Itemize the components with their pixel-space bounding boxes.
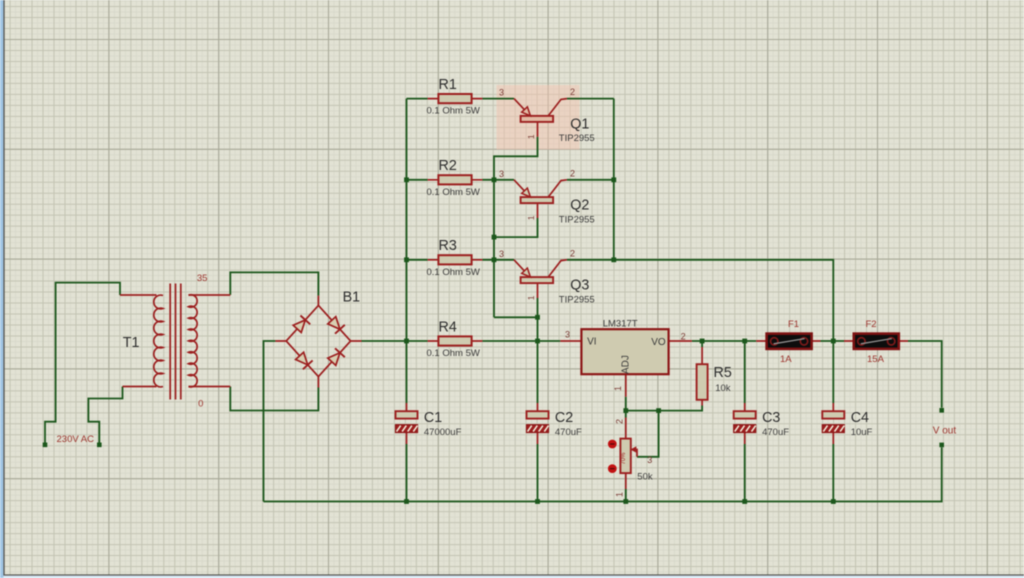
svg-text:C4: C4: [851, 410, 869, 426]
svg-text:R5: R5: [714, 365, 732, 381]
svg-text:F2: F2: [866, 319, 877, 330]
svg-text:10k: 10k: [715, 383, 731, 394]
svg-text:B1: B1: [343, 290, 361, 306]
svg-text:TIP2955: TIP2955: [559, 214, 595, 225]
svg-text:0.1 Ohm 5W: 0.1 Ohm 5W: [427, 106, 480, 117]
svg-text:1: 1: [526, 134, 536, 139]
svg-text:3: 3: [499, 88, 504, 98]
svg-text:R4: R4: [439, 319, 457, 335]
svg-text:1: 1: [613, 386, 623, 391]
svg-text:47000uF: 47000uF: [424, 427, 462, 438]
svg-text:VO: VO: [651, 337, 666, 348]
svg-text:230V AC: 230V AC: [57, 434, 95, 445]
svg-text:2: 2: [681, 331, 686, 341]
svg-text:C1: C1: [424, 410, 442, 426]
svg-text:F1: F1: [788, 319, 799, 330]
svg-text:Q3: Q3: [570, 278, 589, 294]
svg-text:Q1: Q1: [570, 117, 589, 133]
svg-text:3: 3: [565, 330, 570, 340]
svg-text:Q2: Q2: [570, 198, 589, 214]
svg-text:0: 0: [198, 399, 203, 410]
svg-text:R1: R1: [439, 77, 457, 93]
svg-text:V out: V out: [933, 426, 957, 437]
svg-text:1A: 1A: [780, 354, 792, 365]
svg-text:50k: 50k: [637, 472, 653, 483]
svg-text:1: 1: [526, 215, 536, 220]
svg-text:470uF: 470uF: [555, 427, 582, 438]
svg-text:470uF: 470uF: [762, 427, 789, 438]
svg-text:70%: 70%: [621, 452, 627, 465]
svg-text:C3: C3: [762, 410, 780, 426]
svg-text:15A: 15A: [867, 354, 885, 365]
svg-text:TIP2955: TIP2955: [559, 294, 595, 305]
svg-text:2: 2: [570, 168, 575, 178]
svg-text:2: 2: [614, 419, 624, 424]
svg-text:35: 35: [197, 273, 208, 284]
svg-text:C2: C2: [555, 410, 573, 426]
svg-text:2: 2: [570, 87, 575, 97]
svg-text:R3: R3: [439, 238, 457, 254]
svg-text:0.1 Ohm 5W: 0.1 Ohm 5W: [427, 267, 480, 278]
svg-text:1: 1: [526, 295, 536, 300]
svg-text:T1: T1: [123, 335, 140, 351]
svg-text:1: 1: [614, 492, 624, 497]
svg-text:0.1 Ohm 5W: 0.1 Ohm 5W: [427, 187, 480, 198]
svg-text:TIP2955: TIP2955: [559, 133, 595, 144]
svg-text:ADJ: ADJ: [621, 355, 632, 374]
svg-text:10uF: 10uF: [851, 427, 873, 438]
svg-text:3: 3: [499, 169, 504, 179]
svg-text:3: 3: [499, 249, 504, 259]
svg-text:VI: VI: [587, 337, 596, 348]
svg-text:2: 2: [570, 248, 575, 258]
svg-text:3: 3: [647, 455, 652, 465]
svg-text:0.1 Ohm 5W: 0.1 Ohm 5W: [427, 348, 480, 359]
svg-text:R2: R2: [439, 158, 457, 174]
svg-text:LM317T: LM317T: [603, 319, 638, 330]
